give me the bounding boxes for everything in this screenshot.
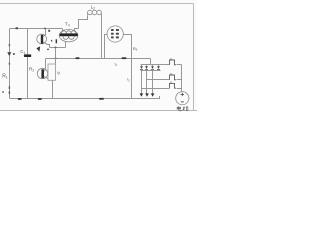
transistor V1 emitter lead [43, 42, 49, 48]
wire step up to L2 [79, 16, 88, 29]
pulse glyph 2 [170, 75, 177, 80]
wire SCR drop 2 [146, 71, 148, 94]
motor plus mark [181, 93, 184, 96]
transformer T4 core band [60, 33, 78, 36]
diode D3 [151, 65, 154, 71]
pulse glyph 3 [170, 83, 177, 88]
wire top bus [10, 28, 63, 30]
transistor V1 emitter arrow [36, 46, 40, 52]
transformer T4 top winding arcs [62, 31, 76, 33]
resistor box right of V2 [48, 64, 56, 80]
SCR arrow 3 [151, 93, 155, 96]
wire T4 top-left stub [62, 29, 64, 31]
wire T4 bottom stub [65, 42, 67, 48]
transistor V2 base bar [41, 69, 44, 78]
wire stub bus to diode rail [150, 59, 152, 65]
motor M circle [176, 92, 189, 105]
wire diode top rail [141, 64, 159, 66]
wire below box to bottom bus [52, 81, 54, 99]
wire VC right lead [124, 35, 132, 99]
tiny mark near T4 left [48, 30, 50, 32]
transformer T4 bottom winding arcs [63, 37, 74, 40]
current arrow on left rail [7, 52, 11, 56]
node V1 collector junction [44, 28, 46, 30]
transistor V1 collector lead [43, 29, 45, 37]
node dot at emitter step [47, 49, 49, 51]
svg-text:u: u [170, 57, 172, 61]
wire diode bottom rail [141, 70, 161, 72]
wire L2 down lead [101, 15, 103, 59]
wire bottom bus [10, 96, 161, 99]
svg-text:u: u [170, 80, 172, 84]
label dianji (motor) vectorized [177, 106, 188, 111]
junction dash 3 on bottom bus [99, 98, 104, 100]
node junction rail/emitter wire [55, 47, 57, 49]
transistor V2 circle [37, 68, 47, 78]
wire left rail [9, 29, 11, 99]
wire pulse lead 2 [147, 79, 182, 81]
wire SCR drop 3 [152, 71, 154, 94]
transformer T4 body [59, 29, 78, 41]
transistor V1 base bar [41, 35, 43, 44]
motor minus mark [181, 101, 184, 103]
wire V1 emitter to T4 bottom [50, 47, 66, 49]
rectifier VC inner diodes [111, 29, 119, 38]
junction dash on top bus [15, 27, 18, 29]
inductor L2 coil [88, 10, 102, 15]
wire VC left lead [105, 35, 108, 59]
wire pulse lead 3 [142, 88, 182, 90]
junction dash on bottom bus [18, 98, 22, 100]
SCR arrow 1 [140, 93, 144, 96]
junction dash 2 on bottom bus [38, 98, 42, 100]
resistor R1 ticks on left rail [8, 44, 10, 94]
wire SCR drop 1 [141, 71, 143, 94]
wire rail2 [27, 29, 29, 99]
diode D2 [145, 65, 148, 71]
transistor V1 circle [37, 34, 47, 44]
wire right vertical to motor [181, 65, 183, 92]
transistor V2 leads [44, 69, 48, 78]
figure frame (decorative) [0, 4, 197, 111]
diode D4 [157, 65, 160, 71]
SCR arrow 2 [145, 93, 149, 96]
diode D1 [140, 65, 143, 71]
wire V2 collector drop [45, 59, 47, 69]
svg-text:u: u [170, 72, 172, 76]
wire mid bus [46, 58, 151, 60]
node dots on mid bus [55, 57, 57, 59]
capacitor C1 plate [24, 54, 31, 57]
wire T4 top-right segment [75, 29, 79, 31]
rectifier VC circle [107, 26, 123, 42]
node dot right of arrow [13, 53, 15, 55]
wire rail from emitter junction to box [55, 48, 57, 64]
pulse glyph 1 [170, 60, 177, 65]
label V1 marks right of transistor [51, 40, 52, 42]
tiny mark left edge [2, 91, 4, 93]
wire pulse lead 1 [159, 64, 182, 66]
